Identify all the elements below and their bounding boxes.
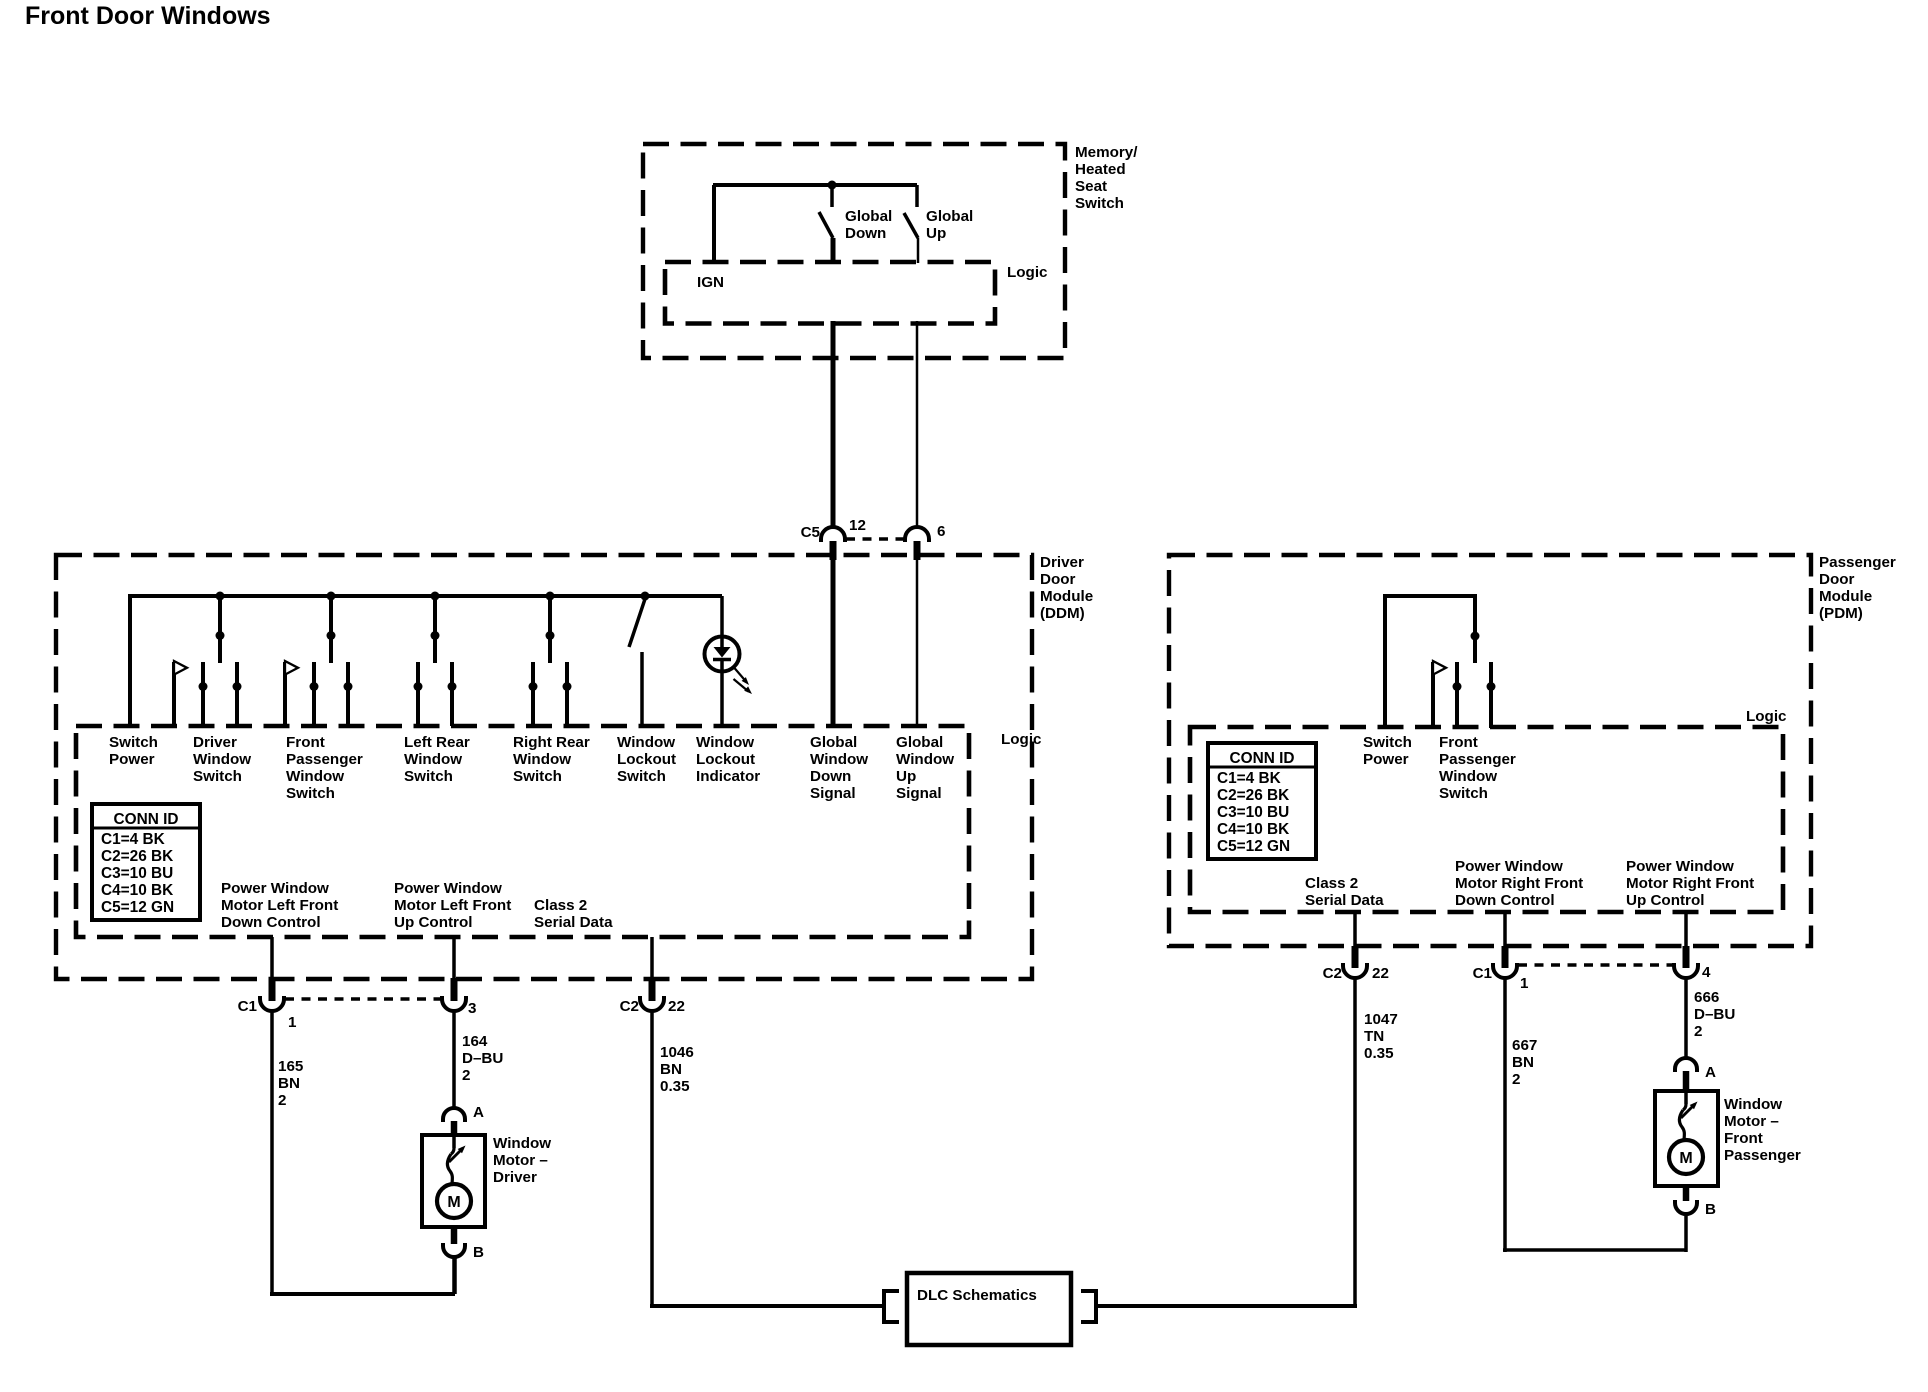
svg-text:Switch: Switch — [109, 734, 158, 751]
svg-text:Right Rear: Right Rear — [513, 734, 590, 751]
svg-text:Power Window: Power Window — [394, 880, 502, 897]
svg-text:Class 2: Class 2 — [1305, 875, 1358, 892]
svg-text:BN: BN — [1512, 1054, 1534, 1071]
svg-text:Module: Module — [1040, 588, 1093, 605]
svg-text:Front: Front — [286, 734, 325, 751]
svg-text:(PDM): (PDM) — [1819, 605, 1863, 622]
svg-text:Signal: Signal — [896, 785, 942, 802]
svg-text:Switch: Switch — [404, 768, 453, 785]
svg-text:3: 3 — [468, 1000, 476, 1017]
svg-text:Down: Down — [845, 225, 886, 242]
svg-text:TN: TN — [1364, 1028, 1384, 1045]
svg-text:C5: C5 — [801, 524, 821, 541]
svg-text:Driver: Driver — [493, 1169, 537, 1186]
svg-text:Indicator: Indicator — [696, 768, 760, 785]
svg-text:Up Control: Up Control — [394, 914, 472, 931]
svg-text:CONN ID: CONN ID — [1230, 750, 1295, 767]
svg-text:22: 22 — [1372, 965, 1389, 982]
svg-text:Logic: Logic — [1746, 708, 1787, 725]
svg-text:C1=4 BK: C1=4 BK — [101, 831, 165, 848]
svg-text:Passenger: Passenger — [1439, 751, 1516, 768]
svg-text:C2=26 BK: C2=26 BK — [1217, 787, 1289, 804]
svg-text:Motor –: Motor – — [1724, 1113, 1779, 1130]
svg-text:Door: Door — [1040, 571, 1076, 588]
svg-text:C4=10 BK: C4=10 BK — [1217, 821, 1289, 838]
svg-text:0.35: 0.35 — [660, 1078, 690, 1095]
svg-text:4: 4 — [1702, 964, 1711, 981]
svg-text:Lockout: Lockout — [617, 751, 676, 768]
svg-text:C1: C1 — [238, 998, 258, 1015]
svg-text:D–BU: D–BU — [462, 1050, 503, 1067]
svg-text:B: B — [1705, 1201, 1716, 1218]
svg-text:1: 1 — [1520, 975, 1529, 992]
svg-text:2: 2 — [278, 1092, 286, 1109]
svg-text:1: 1 — [288, 1014, 297, 1031]
svg-text:Door: Door — [1819, 571, 1855, 588]
svg-text:Front: Front — [1439, 734, 1478, 751]
svg-text:C2: C2 — [620, 998, 639, 1015]
svg-text:Module: Module — [1819, 588, 1872, 605]
svg-text:2: 2 — [462, 1067, 470, 1084]
svg-text:A: A — [473, 1104, 484, 1121]
svg-text:Switch: Switch — [1363, 734, 1412, 751]
svg-text:Passenger: Passenger — [1819, 554, 1896, 571]
svg-text:M: M — [447, 1194, 460, 1211]
svg-text:M: M — [1679, 1150, 1692, 1167]
svg-text:12: 12 — [849, 517, 866, 534]
svg-text:Power: Power — [109, 751, 155, 768]
svg-text:Motor Right Front: Motor Right Front — [1626, 875, 1754, 892]
svg-text:Logic: Logic — [1001, 731, 1042, 748]
svg-text:C5=12 GN: C5=12 GN — [101, 899, 174, 916]
svg-text:Up Control: Up Control — [1626, 892, 1704, 909]
svg-text:CONN ID: CONN ID — [114, 811, 179, 828]
svg-text:Up: Up — [896, 768, 916, 785]
svg-text:Passenger: Passenger — [1724, 1147, 1801, 1164]
svg-text:Window: Window — [617, 734, 675, 751]
svg-text:C5=12 GN: C5=12 GN — [1217, 838, 1290, 855]
svg-text:Window: Window — [404, 751, 462, 768]
svg-text:C2: C2 — [1323, 965, 1342, 982]
svg-text:C2=26 BK: C2=26 BK — [101, 848, 173, 865]
svg-text:Motor Right Front: Motor Right Front — [1455, 875, 1583, 892]
svg-text:Serial Data: Serial Data — [1305, 892, 1384, 909]
svg-text:Switch: Switch — [1439, 785, 1488, 802]
svg-text:Heated: Heated — [1075, 161, 1126, 178]
svg-text:Signal: Signal — [810, 785, 856, 802]
svg-text:Power Window: Power Window — [221, 880, 329, 897]
svg-text:Window: Window — [493, 1135, 551, 1152]
svg-text:C1=4 BK: C1=4 BK — [1217, 770, 1281, 787]
svg-text:(DDM): (DDM) — [1040, 605, 1085, 622]
svg-text:Seat: Seat — [1075, 178, 1107, 195]
svg-text:Memory/: Memory/ — [1075, 144, 1138, 161]
svg-text:Window: Window — [513, 751, 571, 768]
svg-text:Up: Up — [926, 225, 946, 242]
svg-text:C4=10 BK: C4=10 BK — [101, 882, 173, 899]
svg-text:Power Window: Power Window — [1626, 858, 1734, 875]
svg-text:Power Window: Power Window — [1455, 858, 1563, 875]
svg-text:Global: Global — [845, 208, 892, 225]
svg-text:Switch: Switch — [513, 768, 562, 785]
svg-text:IGN: IGN — [697, 274, 724, 291]
svg-text:Window: Window — [1724, 1096, 1782, 1113]
svg-text:Down Control: Down Control — [1455, 892, 1555, 909]
svg-text:Front Door Windows: Front Door Windows — [25, 2, 271, 30]
svg-text:Window: Window — [810, 751, 868, 768]
svg-text:Global: Global — [896, 734, 943, 751]
svg-text:666: 666 — [1694, 989, 1719, 1006]
svg-text:164: 164 — [462, 1033, 488, 1050]
svg-text:Logic: Logic — [1007, 264, 1048, 281]
svg-text:Class 2: Class 2 — [534, 897, 587, 914]
svg-text:Left Rear: Left Rear — [404, 734, 470, 751]
svg-text:C3=10 BU: C3=10 BU — [101, 865, 173, 882]
svg-text:C3=10 BU: C3=10 BU — [1217, 804, 1289, 821]
svg-text:BN: BN — [278, 1075, 300, 1092]
svg-text:Down: Down — [810, 768, 851, 785]
svg-text:Window: Window — [896, 751, 954, 768]
svg-text:Passenger: Passenger — [286, 751, 363, 768]
svg-text:Switch: Switch — [617, 768, 666, 785]
svg-text:C1: C1 — [1473, 965, 1493, 982]
svg-text:DLC Schematics: DLC Schematics — [917, 1287, 1037, 1304]
svg-text:Window: Window — [696, 734, 754, 751]
svg-text:1046: 1046 — [660, 1044, 694, 1061]
svg-text:2: 2 — [1694, 1023, 1702, 1040]
svg-text:Serial Data: Serial Data — [534, 914, 613, 931]
svg-text:0.35: 0.35 — [1364, 1045, 1394, 1062]
svg-text:Switch: Switch — [286, 785, 335, 802]
svg-text:Switch: Switch — [193, 768, 242, 785]
svg-text:Window: Window — [193, 751, 251, 768]
svg-text:Motor Left Front: Motor Left Front — [394, 897, 511, 914]
svg-text:165: 165 — [278, 1058, 304, 1075]
svg-text:B: B — [473, 1244, 484, 1261]
svg-text:6: 6 — [937, 523, 945, 540]
svg-text:Motor –: Motor – — [493, 1152, 548, 1169]
svg-text:2: 2 — [1512, 1071, 1520, 1088]
svg-text:D–BU: D–BU — [1694, 1006, 1735, 1023]
svg-text:1047: 1047 — [1364, 1011, 1398, 1028]
svg-text:Motor Left Front: Motor Left Front — [221, 897, 338, 914]
svg-text:Front: Front — [1724, 1130, 1763, 1147]
svg-text:Window: Window — [1439, 768, 1497, 785]
svg-text:Down Control: Down Control — [221, 914, 321, 931]
svg-text:BN: BN — [660, 1061, 682, 1078]
svg-text:Window: Window — [286, 768, 344, 785]
svg-text:Global: Global — [926, 208, 973, 225]
svg-text:Lockout: Lockout — [696, 751, 755, 768]
svg-text:Driver: Driver — [193, 734, 237, 751]
svg-text:667: 667 — [1512, 1037, 1537, 1054]
svg-text:A: A — [1705, 1064, 1716, 1081]
svg-text:Global: Global — [810, 734, 857, 751]
svg-text:Switch: Switch — [1075, 195, 1124, 212]
svg-text:Power: Power — [1363, 751, 1409, 768]
svg-text:22: 22 — [668, 998, 685, 1015]
svg-text:Driver: Driver — [1040, 554, 1084, 571]
